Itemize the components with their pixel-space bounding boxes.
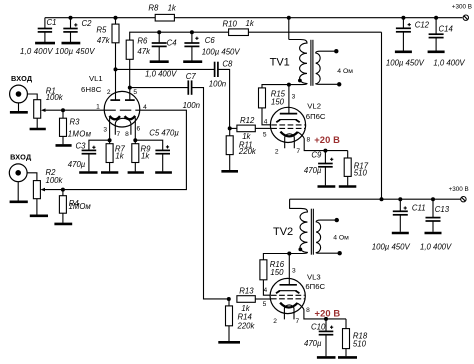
svg-text:8: 8 [306, 307, 310, 314]
ground (R4) [54, 223, 72, 226]
anode 2 (pin 5) [125, 99, 135, 101]
terminal TV2 secondary top [335, 218, 339, 222]
ground (C13) [425, 232, 442, 235]
beam plates VL2 [279, 119, 297, 121]
resistor R7 [106, 144, 113, 163]
node cathode VL2 / C9 [323, 149, 327, 153]
svg-text:+20 В: +20 В [315, 307, 341, 318]
heater [115, 118, 131, 134]
svg-text:VL2: VL2 [307, 102, 321, 111]
heater VL2 [285, 134, 295, 148]
wire lower +300V rail [290, 198, 461, 200]
node C7 line / R13 / R14 [227, 297, 231, 301]
svg-text:C4: C4 [167, 39, 178, 48]
svg-text:3: 3 [292, 94, 296, 101]
wire pin4 to lower grid wire [45, 110, 186, 189]
tube VL2 6P6S [270, 107, 305, 142]
anode 1 (pin 2) [110, 99, 120, 101]
ground (R3) [56, 144, 72, 147]
terminal TV2 secondary bottom [337, 251, 341, 255]
resistor R15 [262, 85, 289, 88]
TV1 core [310, 40, 312, 86]
svg-text:1k: 1k [115, 151, 124, 160]
svg-text:5: 5 [263, 301, 267, 308]
ground (R9) [128, 171, 144, 174]
wire down to lower +300V rail [381, 32, 383, 199]
svg-text:+20 В: +20 В [314, 134, 340, 145]
node TV1 primary bottom / R15 / anode VL2 [287, 83, 291, 87]
svg-text:150: 150 [270, 268, 284, 277]
phase dot TV2 primary [298, 248, 302, 252]
svg-text:1,0 400V 100µ 450V: 1,0 400V 100µ 450V [20, 47, 95, 56]
svg-text:47k: 47k [137, 47, 151, 56]
resistor R4 [62, 190, 64, 196]
svg-text:6П6С: 6П6С [305, 282, 325, 291]
svg-text:4 Ом: 4 Ом [333, 234, 349, 241]
capacitor C10 [325, 319, 327, 331]
cathode 2 [125, 116, 136, 119]
svg-text:R10: R10 [223, 19, 238, 28]
svg-text:100µ 450V: 100µ 450V [386, 58, 425, 67]
ground (R17) [339, 185, 357, 188]
tube VL1 6N8S [104, 91, 140, 127]
TV2 secondary [316, 220, 338, 253]
node C8/R11/R12 [228, 126, 232, 130]
svg-text:2: 2 [273, 318, 277, 325]
svg-text:7: 7 [296, 148, 300, 155]
svg-text:1,0 400V: 1,0 400V [145, 70, 177, 79]
svg-text:TV2: TV2 [273, 226, 293, 238]
svg-text:5: 5 [133, 89, 137, 96]
svg-text:R13: R13 [239, 287, 254, 296]
svg-text:C13: C13 [435, 205, 450, 214]
capacitor C14 [434, 16, 438, 20]
wire plate1 to C8 [116, 68, 215, 70]
capacitor C8 [214, 62, 216, 77]
ground (C11) [392, 232, 409, 235]
potentiometer R1 [34, 100, 41, 119]
ground (R7) [101, 171, 118, 174]
svg-text:100µ 450V: 100µ 450V [202, 48, 241, 57]
control grid VL3 (dashed) [271, 298, 305, 300]
svg-text:C7: C7 [186, 72, 197, 81]
svg-text:ВХОД: ВХОД [11, 74, 33, 83]
wire top +300V rail [45, 17, 155, 19]
screen grid VL3 (dashed) [271, 294, 305, 296]
svg-text:100n: 100n [183, 101, 200, 110]
ground (C2) [62, 42, 81, 45]
capacitor C12 [401, 16, 405, 20]
anode VL3 (pin 3) [280, 284, 297, 286]
svg-text:C2: C2 [82, 19, 93, 28]
node rail/R10 feed [380, 197, 384, 201]
svg-text:3: 3 [103, 126, 107, 133]
svg-text:C8: C8 [222, 59, 233, 68]
capacitor C2 [69, 16, 73, 20]
capacitor C3 [89, 140, 110, 150]
control grid VL2 (dashed) [271, 127, 305, 129]
wire cathode VL3 to C10/R18 [297, 303, 346, 319]
svg-text:R8: R8 [148, 3, 159, 12]
wire pin5 to C7 [130, 87, 188, 89]
ground (R11) [221, 170, 238, 173]
svg-text:1,0 400V: 1,0 400V [420, 243, 452, 252]
capacitor C9 [324, 151, 326, 164]
svg-text:4: 4 [264, 118, 268, 125]
svg-text:1k: 1k [141, 151, 150, 160]
svg-text:1МОм: 1МОм [68, 130, 92, 139]
wire input2 to R2 [27, 173, 37, 181]
svg-text:3: 3 [292, 267, 296, 274]
resistor R9 [132, 144, 139, 163]
svg-text:470µ: 470µ [68, 160, 86, 169]
svg-text:C6: C6 [205, 36, 216, 45]
phase dot TV1 primary [298, 79, 302, 83]
svg-text:7: 7 [295, 318, 299, 325]
svg-text:R5: R5 [96, 25, 107, 34]
ground (C6) [183, 60, 202, 63]
ground (R18) [338, 356, 357, 359]
svg-text:C9: C9 [311, 151, 322, 160]
ground (C14) [428, 50, 445, 53]
svg-text:1k: 1k [246, 19, 255, 28]
TV1 secondary [316, 51, 338, 84]
ground (R2) [30, 215, 48, 218]
ground (C1) [35, 42, 55, 45]
svg-text:R14: R14 [238, 313, 253, 322]
svg-text:2: 2 [275, 149, 279, 156]
svg-text:4 Ом: 4 Ом [337, 68, 353, 75]
resistor R16 [263, 254, 289, 260]
svg-text:C11: C11 [412, 203, 426, 212]
svg-text:100µ 450V: 100µ 450V [372, 243, 411, 252]
svg-text:8: 8 [125, 131, 129, 138]
svg-text:TV1: TV1 [270, 57, 290, 69]
svg-text:220k: 220k [237, 322, 256, 331]
capacitor C11 [398, 197, 402, 201]
svg-text:R3: R3 [70, 117, 81, 126]
resistor R13 [237, 296, 255, 303]
svg-text:6Н8С: 6Н8С [81, 85, 102, 94]
svg-text:+300 В: +300 В [452, 4, 472, 11]
wire cathode VL2 to C9/R17 [298, 132, 348, 151]
svg-text:510: 510 [354, 168, 368, 177]
svg-text:220k: 220k [238, 147, 257, 156]
heater VL3 [284, 305, 294, 320]
svg-text:1,0 400V: 1,0 400V [433, 58, 465, 67]
svg-text:C5 470µ: C5 470µ [149, 129, 179, 138]
cathode VL2 [280, 132, 297, 137]
svg-text:VL1: VL1 [89, 74, 103, 83]
ground (input 1) [10, 111, 28, 114]
ground (C5) [155, 171, 172, 174]
svg-text:C1: C1 [47, 18, 57, 27]
ground (C12) [395, 50, 412, 53]
ground (C9) [318, 185, 336, 188]
wire C7 to VL3 grid (long) [192, 88, 229, 299]
svg-text:C12: C12 [415, 20, 430, 29]
svg-text:5: 5 [263, 132, 267, 139]
resistor R11 [229, 128, 231, 135]
resistor R5 [114, 16, 118, 20]
svg-text:100k: 100k [46, 176, 64, 185]
capacitor C4 [157, 30, 161, 34]
svg-text:6П6С: 6П6С [306, 112, 326, 121]
svg-text:ВХОД: ВХОД [10, 152, 32, 161]
svg-text:470µ: 470µ [304, 166, 322, 175]
svg-text:1k: 1k [168, 3, 177, 12]
svg-text:150: 150 [271, 97, 285, 106]
wire wiper R1 to grid pin1 [45, 109, 104, 111]
svg-text:C10: C10 [311, 322, 326, 331]
svg-text:6: 6 [136, 126, 140, 133]
node cathode VL3 / C10 [324, 317, 328, 321]
svg-text:+300 В: +300 В [449, 186, 469, 193]
TV1 primary [289, 40, 307, 85]
resistor R6 [126, 40, 133, 59]
svg-text:4: 4 [263, 287, 267, 294]
node TV1 feed [287, 16, 291, 20]
cathode VL3 [280, 303, 297, 308]
anode VL2 (pin 3) [280, 113, 297, 115]
capacitor C5 [135, 140, 162, 150]
screen grid VL2 (dashed) [271, 124, 305, 126]
wire input1 to R1 [27, 94, 37, 100]
resistor R3 [62, 110, 64, 118]
ground (C10) [317, 356, 336, 359]
terminal TV1 secondary top [334, 49, 338, 53]
node R5/plate junction [114, 67, 118, 71]
node R2 wiper / R4 [61, 188, 65, 192]
node pin6/R9/C5 [134, 118, 136, 144]
TV2 primary [289, 208, 307, 253]
resistor R17 [347, 151, 349, 158]
resistor R14 [228, 299, 230, 306]
svg-text:510: 510 [353, 340, 367, 349]
capacitor C1 [44, 18, 46, 29]
ground (C4) [150, 60, 169, 63]
ground (R1) [30, 128, 46, 131]
wire rail2 (R10 feed) [130, 32, 229, 40]
svg-text:7: 7 [116, 131, 120, 138]
resistor R10 [229, 29, 249, 36]
svg-text:47k: 47k [97, 36, 111, 45]
capacitor C7 [187, 80, 189, 94]
TV2 core [310, 209, 312, 255]
resistor R18 [345, 319, 347, 329]
svg-text:100k: 100k [46, 93, 64, 102]
svg-text:1МОм: 1МОм [69, 202, 92, 211]
svg-text:C14: C14 [439, 25, 454, 34]
capacitor C6 [190, 30, 194, 34]
resistor R8 [155, 14, 174, 21]
svg-text:R6: R6 [137, 37, 148, 46]
node R1 wiper / R3 [61, 108, 65, 112]
resistor R12 [230, 127, 237, 129]
ground (C3) [79, 171, 97, 174]
svg-text:R12: R12 [240, 116, 255, 125]
terminal +300V (lower) [461, 197, 466, 202]
svg-text:C3: C3 [76, 142, 87, 151]
capacitor C13 [431, 197, 435, 201]
svg-text:8: 8 [306, 136, 310, 143]
cathode 1 [110, 116, 121, 119]
node pin3/R7/C3 [109, 118, 111, 144]
svg-text:100n: 100n [209, 80, 226, 89]
grid (dashed) [104, 109, 139, 111]
beam plates VL3 [279, 290, 297, 292]
potentiometer R2 [33, 181, 40, 199]
terminal +300V (top) [463, 15, 468, 20]
ground (R14) [218, 341, 240, 344]
tube VL3 6P6S [270, 278, 305, 313]
svg-text:2: 2 [107, 89, 111, 96]
node TV2 primary bottom / R16 / anode VL3 [287, 252, 291, 256]
terminal TV1 secondary bottom [337, 82, 341, 86]
node pin5/R6/C7 [128, 86, 132, 90]
svg-text:470µ: 470µ [304, 339, 322, 348]
ground (input 2) [10, 201, 28, 204]
wire rail to TV2 primary [289, 199, 291, 208]
svg-text:VL3: VL3 [307, 273, 321, 282]
